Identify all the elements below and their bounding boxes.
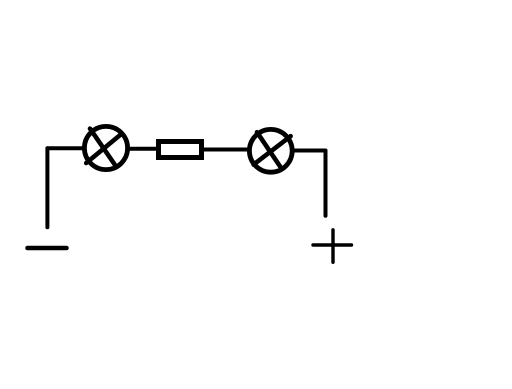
wire: right vertical down to plus (324, 151, 328, 216)
battery negative terminal (minus sign) (28, 246, 67, 251)
resistor R1 (159, 142, 202, 158)
wire: left vertical from minus up to corner (45, 148, 49, 227)
lamp L2 (circle with X) (249, 129, 292, 172)
wire: resistor R1 to lamp L2 (204, 148, 248, 152)
battery positive terminal (plus sign) (313, 230, 352, 262)
wire: lamp L2 to right corner (293, 149, 326, 153)
lamp L1 (circle with X) (84, 126, 127, 169)
wire: left horizontal from corner to lamp L1 (47, 146, 83, 150)
wire: lamp L1 to resistor R1 (129, 147, 157, 151)
